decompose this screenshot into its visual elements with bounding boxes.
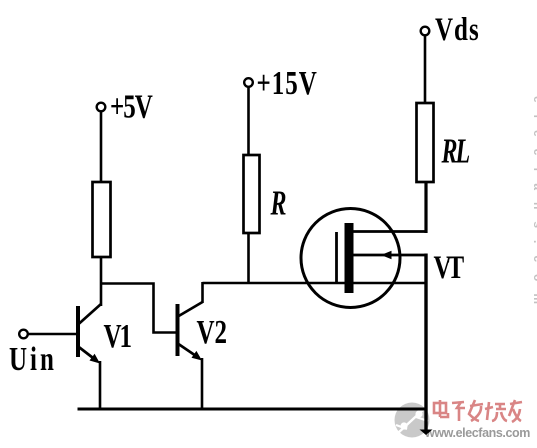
glyph 发 xyxy=(470,404,483,406)
glyph 友 xyxy=(510,402,522,404)
svg-text:+5V: +5V xyxy=(110,89,153,125)
watermark right-edge vertical text elecfans.com xyxy=(531,96,537,316)
MOSFET VT xyxy=(301,209,427,308)
terminal +15V xyxy=(244,78,253,87)
resistor (left, +5V branch) xyxy=(93,182,111,257)
wire +5V terminal to left resistor xyxy=(100,112,103,184)
wire V1 emitter to ground bus xyxy=(99,361,102,410)
label R xyxy=(270,184,287,222)
wire V2 emitter to ground bus xyxy=(201,358,204,410)
svg-text:V1: V1 xyxy=(104,319,132,355)
wire Uin to V1 base xyxy=(28,333,77,336)
wire resistor R down to gate rail xyxy=(247,233,250,283)
glyph 电 xyxy=(434,403,446,413)
terminal Vds xyxy=(421,27,430,36)
wire MOSFET source/body down to ground xyxy=(424,254,427,433)
resistor RL xyxy=(417,103,434,182)
wire V2 collector up to top rail xyxy=(201,282,204,303)
label V1 xyxy=(104,319,132,355)
transistor V2 xyxy=(177,302,203,361)
wire V1 collector to V2 base xyxy=(101,284,176,333)
svg-text:VT: VT xyxy=(434,250,464,286)
label +5V xyxy=(110,89,153,125)
terminal +5V xyxy=(97,103,106,112)
ground symbol xyxy=(420,430,433,436)
svg-text:V2: V2 xyxy=(197,315,228,351)
label Uin xyxy=(9,342,57,378)
resistor R xyxy=(244,155,260,233)
wire +15V terminal to resistor R xyxy=(247,87,250,156)
label VT xyxy=(434,250,464,286)
wire gate/source rail (V2 collector, R node, MOSFET gate lead and source lead) xyxy=(203,282,428,285)
label +15V xyxy=(257,66,318,102)
svg-text:www.elecfans.com: www.elecfans.com xyxy=(424,426,530,440)
wire RL down to drain corner xyxy=(424,182,427,233)
svg-text:RL: RL xyxy=(441,132,469,170)
watermark logo circle (elecfans) xyxy=(395,403,430,438)
watermark red text 电子发烧友 (hand-drawn strokes) xyxy=(434,400,522,422)
svg-text:+15V: +15V xyxy=(257,66,318,102)
glyph 子 xyxy=(452,402,464,403)
transistor V1 xyxy=(78,304,102,364)
ground bus wire xyxy=(78,408,428,411)
svg-text:elecfans.com: elecfans.com xyxy=(531,96,537,316)
svg-text:Vds: Vds xyxy=(435,12,480,48)
label Vds xyxy=(435,12,480,48)
glyph 烧 xyxy=(487,402,489,420)
label V2 xyxy=(197,315,228,351)
label RL xyxy=(441,132,469,170)
wire resistor to V1 collector xyxy=(100,257,103,306)
svg-text:R: R xyxy=(270,184,287,222)
svg-text:Uin: Uin xyxy=(9,342,57,378)
terminal Uin xyxy=(19,330,28,339)
wire Vds terminal to resistor RL xyxy=(424,36,427,105)
